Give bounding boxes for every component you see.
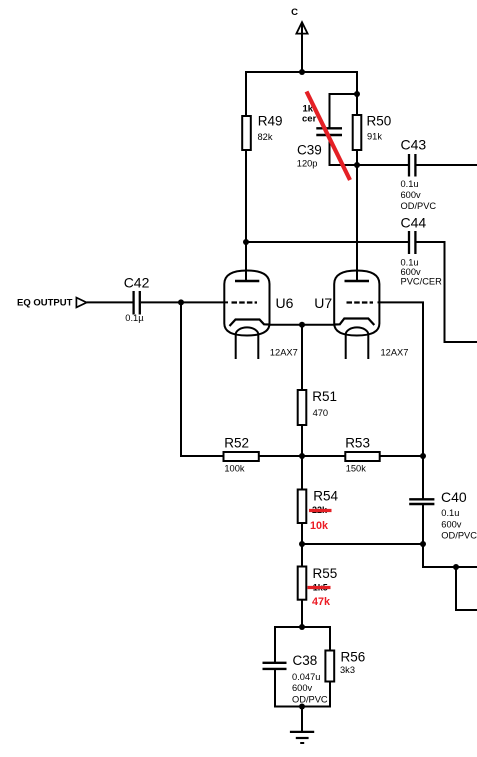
wire U7 plate drop <box>356 165 358 281</box>
wire R54 bottom <box>301 523 303 544</box>
wire C39 bottom branch <box>330 135 358 165</box>
svg-text:3k3: 3k3 <box>340 665 355 675</box>
resistor R50 <box>353 115 362 150</box>
svg-text:600v: 600v <box>401 190 422 200</box>
svg-text:82k: 82k <box>258 132 273 142</box>
svg-text:C42: C42 <box>124 275 150 291</box>
wire C44 right elbow to edge <box>416 242 477 342</box>
capacitor C38 <box>263 663 287 669</box>
capacitor C43 <box>409 154 415 177</box>
svg-text:600v: 600v <box>441 519 462 529</box>
junction dot C39 branch <box>354 91 360 97</box>
svg-text:0.1µ: 0.1µ <box>125 313 144 323</box>
junction dot cathode node <box>299 322 305 328</box>
wire R50 bottom stub <box>356 150 358 165</box>
wire left drop to R49 <box>245 71 247 116</box>
svg-text:0.1u: 0.1u <box>401 179 419 189</box>
svg-text:U7: U7 <box>314 295 332 311</box>
wire U7 grid lead to right column <box>378 302 424 456</box>
wire stub down and right to edge <box>456 567 477 610</box>
svg-text:C40: C40 <box>441 489 467 505</box>
svg-text:10k: 10k <box>310 520 329 532</box>
wire R49 bottom to U6 plate <box>245 150 247 281</box>
svg-text:100k: 100k <box>224 464 245 474</box>
svg-text:470: 470 <box>313 408 329 418</box>
junction dot R54 bottom <box>299 541 305 547</box>
junction dot C38/R56 top <box>299 624 305 630</box>
ground symbol <box>290 732 314 743</box>
wire bottom right elbow to edge <box>423 544 477 567</box>
junction dot C43 node <box>354 162 360 168</box>
svg-text:12AX7: 12AX7 <box>381 348 409 358</box>
wire cathode node down to R51 <box>301 325 303 390</box>
svg-text:R53: R53 <box>345 436 370 451</box>
triode U6 <box>224 271 269 360</box>
svg-text:U6: U6 <box>276 295 294 311</box>
wire input to C42 <box>87 301 133 303</box>
wire node down to R54 <box>301 456 303 490</box>
wire down to R55 <box>301 544 303 567</box>
junction dot bottom rail <box>299 704 305 710</box>
wire top rail <box>245 71 357 73</box>
wire C42 to U6 grid <box>141 301 228 303</box>
svg-text:R49: R49 <box>258 114 283 129</box>
wire R56 bottom leg <box>329 682 331 708</box>
svg-text:OD/PVC: OD/PVC <box>401 201 437 211</box>
svg-text:0.1u: 0.1u <box>401 258 419 268</box>
wire C43 right to edge <box>416 164 477 166</box>
resistor R55 <box>298 567 307 600</box>
svg-text:C39: C39 <box>297 143 322 158</box>
resistor R49 <box>242 116 251 150</box>
wire R51 bottom <box>301 425 303 456</box>
wire stem from arrow C down to top rail <box>301 22 303 72</box>
junction dot divider node <box>299 453 305 459</box>
red strike-through over C39 <box>307 92 351 181</box>
svg-text:150k: 150k <box>346 464 367 474</box>
svg-text:C44: C44 <box>401 215 427 231</box>
wire right leg to R56 <box>329 626 331 651</box>
svg-text:C: C <box>291 7 298 18</box>
svg-text:91k: 91k <box>367 132 382 142</box>
capacitor C42 <box>134 291 140 315</box>
svg-text:R52: R52 <box>224 436 249 451</box>
junction dot C40 bottom <box>420 541 426 547</box>
wire across to C40 column <box>302 543 423 545</box>
svg-text:R56: R56 <box>341 650 366 665</box>
junction dot bottom right <box>453 564 459 570</box>
wire C38/R56 top rail <box>275 626 330 628</box>
wire R52 to node <box>259 455 345 457</box>
resistor R51 <box>298 390 307 425</box>
wire grid node down and across to R52 <box>181 302 224 456</box>
junction dot top rail <box>299 69 305 75</box>
junction dot grid node <box>178 299 184 305</box>
wire C44 left <box>246 241 408 243</box>
resistor R54 <box>298 490 307 524</box>
wire C43 left <box>357 164 408 166</box>
wire C40 bottom <box>422 504 424 544</box>
junction dot right column <box>420 453 426 459</box>
svg-text:600v: 600v <box>401 267 422 277</box>
wire R53 right to column <box>380 455 423 457</box>
svg-text:600v: 600v <box>292 683 313 693</box>
wire left leg to C38 <box>274 626 276 663</box>
svg-text:12AX7: 12AX7 <box>270 348 298 358</box>
red strike through 1k5 <box>308 586 331 589</box>
triode U7 <box>334 271 379 360</box>
red strike through 22k <box>309 509 332 512</box>
svg-text:C38: C38 <box>293 653 318 668</box>
svg-text:0.047u: 0.047u <box>292 672 320 682</box>
wire C39 top branch <box>330 94 358 128</box>
svg-text:R55: R55 <box>313 566 338 581</box>
wire cathode link U6-U7 <box>270 324 335 326</box>
capacitor C44 <box>409 231 415 254</box>
svg-text:R51: R51 <box>312 389 337 404</box>
wire to ground <box>301 707 303 732</box>
svg-text:0.1u: 0.1u <box>441 508 459 518</box>
svg-text:PVC/CER: PVC/CER <box>401 277 443 287</box>
power arrow symbol C <box>296 22 307 33</box>
svg-text:R54: R54 <box>313 489 338 504</box>
resistor R52 <box>224 452 259 461</box>
svg-text:C43: C43 <box>401 137 427 153</box>
svg-text:OD/PVC: OD/PVC <box>441 530 477 540</box>
wire R55 bottom <box>301 600 303 627</box>
wire right drop from rail <box>356 71 358 94</box>
resistor R56 <box>325 651 334 682</box>
svg-text:cer: cer <box>302 113 317 124</box>
junction dot C44 node on U6 plate line <box>243 239 249 245</box>
wire R50 top stub <box>356 94 358 115</box>
svg-text:OD/PVC: OD/PVC <box>292 695 328 705</box>
svg-text:47k: 47k <box>312 596 331 608</box>
wire down to C40 <box>422 456 424 499</box>
capacitor C39 <box>316 128 342 135</box>
input arrow symbol <box>76 298 86 308</box>
svg-text:120p: 120p <box>297 159 318 169</box>
wire C38 bottom leg <box>274 669 276 708</box>
capacitor C40 <box>409 499 434 504</box>
svg-text:R50: R50 <box>367 113 392 128</box>
resistor R53 <box>345 452 379 461</box>
svg-text:EQ OUTPUT: EQ OUTPUT <box>17 298 73 309</box>
wire bottom rail <box>275 706 330 708</box>
